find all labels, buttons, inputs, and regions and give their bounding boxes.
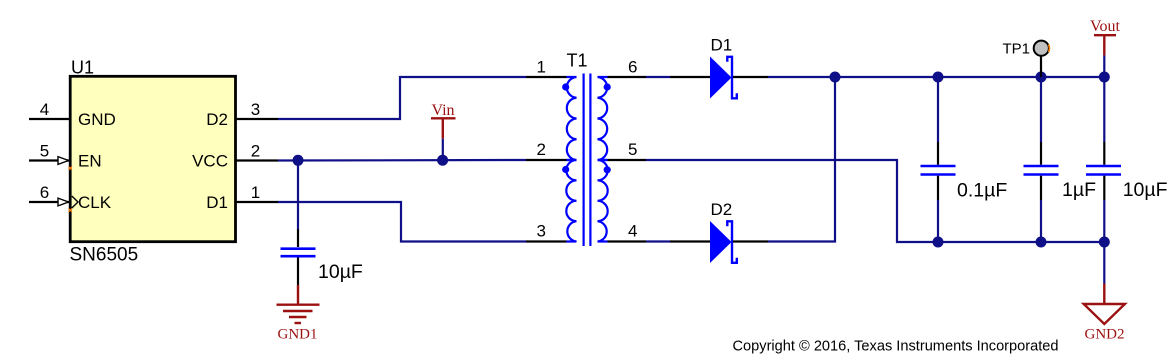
TP1 orange mark (1048, 45, 1051, 53)
svg-text:1: 1 (537, 58, 546, 77)
ground GND1 symbol (277, 305, 320, 323)
svg-text:Vin: Vin (431, 102, 454, 119)
Vout riser wire (navy) (1103, 55, 1105, 77)
capacitor 10uF (bypass) plates (281, 247, 316, 250)
svg-text:EN: EN (78, 152, 102, 171)
GND1 lead (dark red) (297, 285, 299, 305)
wire D1 net to transformer pin3 (278, 202, 526, 242)
T1 secondary winding lower (598, 160, 608, 242)
svg-text:5: 5 (628, 140, 637, 159)
capacitor C1 0.1uF (921, 77, 956, 242)
wire D1 to output rail (768, 76, 1104, 78)
IC U1 body (70, 76, 235, 241)
wire VCC net (278, 159, 526, 162)
svg-text:D1: D1 (711, 36, 733, 55)
svg-text:2: 2 (251, 142, 260, 161)
wire VCC down to C bypass (297, 161, 299, 230)
diode D2 triangle (710, 221, 732, 263)
svg-text:D1: D1 (206, 193, 228, 212)
svg-text:6: 6 (628, 58, 637, 77)
junction C2 bottom (1036, 237, 1047, 248)
pin 1 stub (D1 out) (236, 201, 278, 203)
junction C1 bottom (933, 237, 944, 248)
Vout power symbol (1103, 35, 1105, 55)
ground GND2 triangle (1084, 304, 1125, 324)
svg-text:10µF: 10µF (1123, 179, 1168, 201)
diode D1 schottky cathode (727, 57, 737, 99)
svg-text:Vout: Vout (1090, 18, 1120, 35)
pin 4 stub (29, 118, 70, 120)
svg-text:3: 3 (537, 222, 546, 241)
svg-text:TP1: TP1 (1003, 41, 1031, 58)
wire ground rail down to GND2 (1103, 242, 1105, 284)
T1 pin 4 stub (608, 240, 647, 242)
wire T1 pin6 to D1 (646, 76, 670, 78)
T1 polarity dot secondary upper (604, 83, 611, 90)
pin 2 stub (VCC) (236, 159, 278, 161)
svg-text:0.1µF: 0.1µF (957, 179, 1007, 201)
pin 6 input arrow (58, 198, 69, 206)
D1 anode stub (670, 76, 710, 78)
wire T1 pin4 to D2 (646, 240, 670, 242)
junction Vin tap (437, 155, 448, 166)
T1 pin 2 stub (526, 159, 567, 161)
svg-text:5: 5 (40, 142, 49, 161)
svg-text:3: 3 (251, 100, 260, 119)
T1 pin 5 stub (608, 159, 647, 161)
svg-text:D2: D2 (206, 110, 228, 129)
T1 pin 3 stub (526, 240, 567, 242)
svg-text:CLK: CLK (78, 193, 112, 212)
orange ERC mark CLK (69, 209, 73, 213)
junction D2/rail (830, 72, 841, 83)
svg-text:4: 4 (628, 222, 637, 241)
svg-text:VCC: VCC (192, 152, 228, 171)
pin 5 stub (29, 159, 70, 161)
pin 3 stub (D2 out) (236, 118, 278, 120)
svg-text:6: 6 (40, 183, 49, 202)
T1 polarity dot secondary lower (604, 166, 611, 173)
T1 primary winding upper (567, 77, 577, 160)
svg-text:U1: U1 (71, 58, 94, 78)
svg-text:GND1: GND1 (278, 327, 318, 343)
junction C3 bottom (1099, 237, 1110, 248)
svg-text:10µF: 10µF (318, 261, 363, 283)
svg-text:1: 1 (251, 183, 260, 202)
T1 core lines (582, 74, 584, 247)
svg-text:D2: D2 (711, 200, 733, 219)
pin 6 stub (29, 201, 70, 203)
wire D2 net to transformer pin1 (278, 77, 526, 119)
diode D1 triangle (710, 57, 732, 99)
capacitor C2 1uF (1024, 77, 1059, 242)
svg-text:1µF: 1µF (1062, 179, 1096, 201)
capacitor C3 10uF (1086, 77, 1121, 242)
svg-text:GND: GND (78, 110, 116, 129)
svg-text:GND2: GND2 (1085, 327, 1125, 343)
D1 cathode stub (733, 76, 768, 78)
junction rail end / Vout (1099, 72, 1110, 83)
T1 primary winding lower (566, 160, 576, 242)
T1 pin 1 stub (526, 76, 567, 78)
junction C2 top (1036, 72, 1047, 83)
junction VCC tap (293, 155, 304, 166)
T1 polarity dot primary lower (562, 166, 569, 173)
diode D2 schottky cathode (727, 221, 737, 262)
test point TP1 circle (1034, 41, 1049, 56)
capacitor bypass lead bottom (black) (297, 258, 299, 286)
pin 5 input arrow (58, 157, 69, 165)
junction C1 top (933, 72, 944, 83)
svg-text:SN6505: SN6505 (70, 245, 139, 266)
T1 polarity dot primary upper (562, 83, 569, 90)
D2 cathode stub (733, 240, 768, 242)
svg-text:4: 4 (40, 100, 49, 119)
Vin riser wire (navy) (442, 139, 444, 160)
wire T1 pin5 to ground rail (646, 160, 1104, 242)
svg-text:T1: T1 (566, 51, 587, 71)
T1 pin 6 stub (608, 76, 647, 78)
T1 secondary winding upper (598, 77, 608, 160)
Vin power symbol (442, 118, 444, 138)
test point TP1 stub (1040, 57, 1042, 78)
GND2 lead (dark red) (1103, 284, 1105, 305)
svg-text:2: 2 (537, 140, 546, 159)
wire D2 up to output rail (768, 77, 835, 242)
svg-text:Copyright © 2016, Texas Instru: Copyright © 2016, Texas Instruments Inco… (733, 338, 1059, 354)
orange ERC mark EN (69, 167, 73, 171)
capacitor C bypass lead top (black) (297, 229, 299, 247)
CLK clock chevron (72, 196, 78, 208)
D2 anode stub (670, 240, 710, 242)
